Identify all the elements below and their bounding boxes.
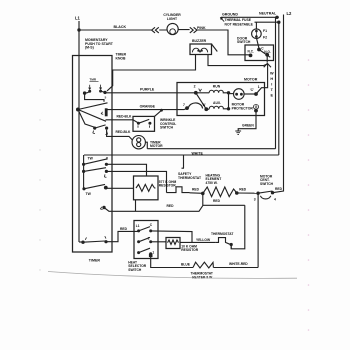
svg-text:RED: RED: [192, 187, 200, 191]
svg-text:'A': 'A': [202, 103, 206, 107]
wire element to cent switch: [237, 192, 258, 194]
momentary switch right contact: [99, 90, 102, 93]
door switch C contact: [257, 48, 261, 52]
cent switch blade: [258, 191, 272, 193]
wrinkle switch left contact: [137, 122, 140, 125]
node L2: [287, 11, 293, 16]
door switch N.O. contact: [265, 53, 269, 57]
timer contact red wire: [102, 206, 105, 209]
heat selector blade 3: [139, 248, 150, 252]
junction aux: [227, 107, 230, 110]
resistor R2 10K box: [166, 238, 180, 249]
label TW upper: [88, 157, 94, 161]
svg-text:C: C: [150, 223, 153, 227]
wire junction to protector: [229, 93, 234, 95]
svg-text:5: 5: [105, 96, 107, 100]
wire fuse bottom to door switch C: [257, 39, 259, 49]
svg-text:WHITE: WHITE: [192, 151, 204, 155]
label NEUTRAL: [259, 12, 277, 16]
label BLUE: [181, 263, 191, 267]
timer contact right y128: [105, 127, 108, 130]
thermal fuse F1-F2: [252, 29, 262, 39]
vertical neutral wire B: [278, 22, 280, 155]
svg-text:RED: RED: [120, 227, 128, 231]
label RED element right: [239, 187, 247, 191]
svg-text:RESISTOR: RESISTOR: [181, 248, 198, 252]
wire M-S junction loop: [85, 93, 104, 102]
TW contact pivot 2: [82, 170, 85, 173]
svg-text:RED-BLK: RED-BLK: [117, 115, 132, 119]
wire purple: [106, 92, 197, 94]
svg-text:F2: F2: [263, 36, 267, 40]
wire white line1: [147, 148, 275, 150]
motor protector U1: [234, 89, 245, 100]
aux winding: [206, 106, 228, 109]
tick above pin 2: [199, 89, 202, 92]
timer contact left y128: [93, 127, 96, 130]
wire red lower run: [104, 205, 245, 211]
wire G to ground: [238, 111, 256, 131]
svg-text:SWITCH: SWITCH: [160, 126, 174, 130]
buzzer striker arm: [212, 44, 218, 52]
wire C to yellow node: [151, 231, 192, 243]
svg-text:4750 W.: 4750 W.: [206, 181, 218, 185]
svg-text:GREEN: GREEN: [242, 124, 254, 128]
wire red down leg x244.8: [231, 205, 245, 249]
node L1: [75, 16, 81, 21]
stub line2 to TW contacts: [83, 155, 85, 189]
label RED-BLK upper: [117, 115, 132, 119]
svg-text:KNOB: KNOB: [116, 56, 127, 60]
svg-text:TW: TW: [86, 192, 92, 196]
svg-text:RED: RED: [167, 204, 175, 208]
wire TW3 to 577K left: [106, 187, 134, 189]
pin 2 heat selector: [148, 237, 150, 241]
svg-text:RED: RED: [239, 187, 247, 191]
motor centrifugal arc: [188, 103, 202, 109]
svg-text:1: 1: [258, 85, 260, 89]
svg-text:E: E: [271, 94, 274, 98]
tick near orange contact: [101, 112, 103, 115]
svg-text:3: 3: [254, 197, 256, 201]
cent switch pin 4: [271, 191, 274, 194]
pin G: [255, 105, 258, 109]
label RED heat selector feed: [120, 227, 128, 231]
door switch N.C. contact: [249, 54, 253, 58]
wire neutral upper: [221, 16, 279, 18]
label GREEN: [242, 124, 254, 128]
wrinkle switch right contact: [148, 122, 151, 125]
svg-text:1: 1: [152, 250, 154, 254]
heat selector middle pivot: [137, 240, 140, 243]
svg-text:I: I: [271, 83, 272, 87]
svg-text:THERMAL FUSE: THERMAL FUSE: [225, 18, 252, 22]
resistor R1 577K box: [134, 176, 159, 200]
junction heating element left: [201, 192, 205, 196]
wire pin4 to L2: [273, 189, 284, 193]
thermostat heater element: [193, 262, 213, 268]
svg-text:AUX.: AUX.: [213, 101, 221, 105]
heating element HE1: [203, 187, 237, 197]
label THERMOSTAT HEATER-8 W.: [191, 272, 214, 280]
svg-text:NEUTRAL: NEUTRAL: [259, 12, 277, 16]
pin L1 heat selector: [136, 224, 140, 228]
ground arrow: [221, 18, 224, 21]
wire neutral lower to fuse: [255, 21, 279, 23]
timer fan blade upper: [78, 103, 108, 110]
wrinkle switch blade: [138, 119, 149, 123]
timer fan blade middle: [78, 110, 106, 122]
door switch box: [245, 45, 274, 61]
label MOTOR CENT. SWITCH: [260, 175, 274, 186]
label WHITE vertical: [270, 72, 274, 98]
svg-text:SWITCH: SWITCH: [237, 40, 251, 44]
label YELLOW: [196, 238, 211, 242]
thermostat symbol: [216, 238, 230, 245]
svg-text:PROTECTOR: PROTECTOR: [232, 106, 254, 110]
junction neutral lower: [277, 21, 280, 24]
svg-text:NOT RESETABLE: NOT RESETABLE: [225, 23, 254, 27]
wire aux junction up: [228, 93, 230, 109]
junction L1/black: [77, 28, 80, 31]
label TIMER MOTOR: [150, 140, 163, 148]
wire timer motor to white line1: [145, 142, 147, 149]
svg-text:T: T: [271, 88, 274, 92]
buzzer BZ1: [190, 44, 212, 55]
TW fixed contact 3: [104, 186, 108, 190]
tick timer bottom right: [105, 236, 106, 238]
label WHITE-RED: [229, 262, 248, 266]
pin 7: [183, 103, 185, 107]
svg-text:MOTOR: MOTOR: [244, 77, 258, 81]
svg-text:N.C.: N.C.: [248, 50, 254, 54]
label RED-BLK lower: [116, 130, 131, 134]
svg-text:(M-S): (M-S): [85, 46, 94, 50]
TW fixed contact 2: [105, 170, 108, 173]
svg-text:2: 2: [194, 84, 196, 88]
label MOTOR PROTECTOR: [232, 103, 254, 111]
timer blade y128: [95, 125, 106, 128]
TW fixed contact 1: [105, 163, 108, 166]
label CYLINDER LIGHT: [163, 13, 181, 21]
lamp DS1 cylinder light: [167, 23, 178, 34]
svg-text:RED: RED: [213, 199, 221, 203]
heat selector switch box: [134, 221, 158, 259]
label BUZZER: [192, 39, 207, 43]
wrinkle control switch box: [133, 116, 155, 131]
junction M-S: [83, 91, 86, 94]
timer bottom blade: [83, 241, 105, 242]
motor box: [177, 83, 265, 116]
wire fuse top to neutral: [255, 22, 257, 29]
resistor R1 zigzag: [136, 184, 155, 191]
pin A: [202, 103, 206, 107]
run winding: [196, 90, 228, 93]
svg-text:WHITE-RED: WHITE-RED: [229, 262, 248, 266]
safety thermostat stub from line2: [182, 155, 185, 168]
wire TW1 to 577K top: [106, 164, 146, 176]
wire buzzer left lead to timer: [107, 55, 196, 92]
label THERMAL FUSE NOT RESETABLE: [225, 18, 254, 26]
heat selector blade 1: [139, 227, 150, 231]
svg-text:RED: RED: [275, 187, 283, 191]
page curl line: [48, 272, 297, 279]
timer box: [73, 56, 113, 253]
wire red-blk lower: [107, 130, 133, 140]
timer fan junction: [76, 108, 80, 112]
svg-text:L2: L2: [287, 11, 293, 16]
motor centrifugal blade: [196, 93, 207, 109]
wire pin2 to 10K: [151, 241, 166, 243]
svg-text:YELLOW: YELLOW: [196, 238, 211, 242]
label RED cent switch: [275, 187, 283, 191]
momentary switch contact label: [90, 78, 97, 82]
timer contact blob orange: [105, 108, 108, 116]
cent switch pin 3: [256, 192, 259, 195]
label PURPLE: [140, 88, 155, 92]
pin C heat selector: [150, 223, 153, 227]
purple terminal: [103, 91, 106, 94]
svg-text:H: H: [270, 77, 273, 81]
label DOOR SWITCH: [237, 36, 251, 44]
svg-text:4: 4: [274, 197, 276, 201]
wire pin3 down: [257, 193, 259, 267]
connector chevrons left of lamp: [152, 27, 159, 33]
wire protector to C: [244, 93, 256, 95]
thermostat contact: [230, 243, 233, 246]
momentary switch left contact: [88, 90, 91, 93]
L2 bus vertical: [283, 15, 285, 190]
svg-text:F1: F1: [263, 29, 267, 33]
cent switch arc: [260, 196, 270, 199]
pin F2: [263, 36, 267, 40]
momentary blade to purple terminal: [101, 91, 105, 92]
wire L1 bus vertical: [78, 21, 80, 242]
label 577 K OHM RESISTOR: [159, 180, 177, 188]
TW blade 3: [84, 184, 105, 188]
svg-text:BUZZER: BUZZER: [192, 39, 207, 43]
svg-text:L1: L1: [75, 16, 81, 21]
wire bottom blue/white-red: [151, 256, 193, 268]
heat selector bottom pivot: [137, 251, 140, 254]
tick below TW2: [104, 174, 106, 177]
arrow up under door switch: [264, 63, 271, 67]
svg-text:ORANGE: ORANGE: [140, 105, 156, 109]
wire M-S left contact curve: [85, 91, 90, 93]
tick timer bottom left: [85, 237, 86, 239]
wire white line2: [84, 154, 279, 156]
label HEAT SELECTOR SWITCH: [128, 261, 147, 272]
TW blade 1: [84, 159, 107, 164]
label THERMOSTAT: [211, 232, 233, 236]
label 10 K OHM RESISTOR: [181, 244, 198, 252]
label TIMER KNOB: [116, 53, 127, 61]
svg-text:BLUE: BLUE: [181, 263, 191, 267]
svg-text:TIMER: TIMER: [89, 259, 101, 263]
wire thermostat to red leg: [230, 247, 232, 249]
wire black: [79, 29, 190, 31]
label MOMENTARY PUSH TO START (M-S): [85, 38, 114, 50]
label RED safety: [192, 187, 200, 191]
svg-text:THERMOSTAT: THERMOSTAT: [211, 232, 233, 236]
wire element junction down: [202, 193, 204, 205]
label PINK: [197, 26, 206, 30]
junction neutral upper: [275, 16, 278, 19]
heat selector blade 2: [139, 237, 150, 241]
svg-text:G: G: [255, 105, 258, 109]
label HEATING ELEMENT 4750 W.: [206, 174, 222, 185]
scan noise dotted line left: [39, 89, 40, 270]
TW contact pivot 3: [82, 187, 85, 190]
label WHITE: [192, 151, 204, 155]
svg-text:7: 7: [183, 103, 185, 107]
svg-text:THERMOSTAT: THERMOSTAT: [178, 176, 202, 180]
label RED at 167: [167, 204, 175, 208]
svg-text:L1: L1: [136, 224, 140, 228]
pin 5 mark: [105, 96, 107, 100]
wire red-blk upper: [106, 120, 139, 123]
svg-text:SWITCH: SWITCH: [260, 182, 274, 186]
wire pink: [197, 30, 249, 55]
safety thermostat symbol: [167, 187, 190, 193]
svg-text:BLACK: BLACK: [114, 25, 127, 29]
svg-text:W: W: [270, 72, 274, 76]
pin 2: [194, 84, 196, 88]
svg-text:HEATER-8 W.: HEATER-8 W.: [192, 275, 213, 279]
timer bus bottom corner: [79, 241, 83, 243]
label GROUND: [222, 12, 238, 16]
svg-text:LIGHT: LIGHT: [167, 17, 178, 21]
pin F1: [263, 29, 267, 33]
TW contact pivot 1: [82, 163, 85, 166]
connector chevrons right of lamp: [190, 27, 197, 33]
wrinkle ticks: [138, 125, 150, 127]
tick below right y128: [105, 132, 107, 135]
tick below left y128: [93, 131, 95, 134]
label SAFETY THERMOSTAT: [178, 172, 202, 180]
pin C: [250, 88, 254, 92]
timer motor M2: [132, 136, 145, 149]
svg-text:RED-BLK: RED-BLK: [116, 130, 131, 134]
svg-text:TW: TW: [88, 157, 94, 161]
svg-text:PINK: PINK: [197, 26, 206, 30]
svg-text:RUN: RUN: [213, 84, 221, 88]
wire N.O. down to motor C: [256, 55, 268, 94]
svg-text:PURPLE: PURPLE: [140, 88, 155, 92]
wire safety to element: [190, 192, 203, 195]
svg-text:TMR: TMR: [90, 78, 97, 82]
label RUN: [213, 84, 221, 88]
label TW lower: [86, 192, 92, 196]
label MOTOR: [244, 77, 258, 81]
label WRINKLE CONTROL SWITCH: [160, 118, 176, 130]
wire 10K to thermostat yellow: [180, 241, 216, 243]
wrinkle link to orange wire: [155, 110, 162, 116]
svg-text:MOTOR: MOTOR: [150, 144, 163, 148]
timer fan blade lower: [78, 110, 95, 128]
svg-text:GROUND: GROUND: [222, 12, 238, 16]
pin 1: [258, 85, 260, 89]
label RED at 213: [213, 199, 221, 203]
wire timer to heat selector L1: [106, 231, 139, 241]
wire orange: [108, 108, 188, 109]
resistor R2 zigzag: [168, 240, 179, 244]
label BLACK: [114, 25, 127, 29]
label ORANGE: [140, 105, 156, 109]
TW blade 2: [84, 168, 106, 172]
wire buzzer right lead to N.O. line: [208, 55, 268, 66]
svg-text:'C': 'C': [250, 88, 254, 92]
wire TW2 to safety thermostat: [106, 171, 166, 192]
scan noise dotted line right: [308, 59, 310, 331]
junction heating element right: [235, 191, 239, 195]
heat selector terminal 1 blob: [149, 254, 153, 257]
label TIMER: [89, 259, 101, 263]
pin 1 heat selector: [152, 250, 154, 254]
timer bottom junction: [81, 241, 84, 244]
label AUX.: [213, 101, 221, 105]
vertical neutral wire A: [275, 17, 277, 148]
wire 577K bottom tap: [135, 200, 137, 212]
svg-text:RESISTOR: RESISTOR: [159, 184, 176, 188]
timer bottom contact: [104, 240, 107, 243]
ground symbol: [235, 131, 241, 134]
svg-text:SWITCH: SWITCH: [128, 268, 142, 272]
junction run/protector: [227, 91, 230, 94]
door switch blade C to N.O.: [259, 50, 270, 58]
